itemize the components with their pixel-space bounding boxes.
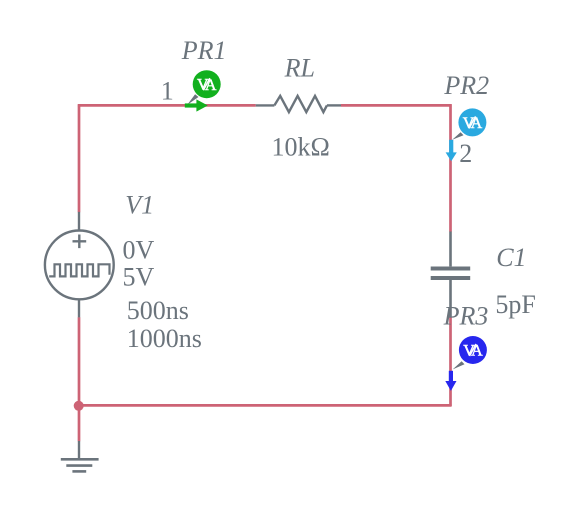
probe PR1 arrow tail xyxy=(185,103,197,107)
probe PR3 arrow tail xyxy=(449,371,453,382)
svg-text:1000ns: 1000ns xyxy=(127,324,202,353)
svg-text:1: 1 xyxy=(161,77,174,106)
ground lead xyxy=(78,441,80,458)
probe PR1 pointer wedge xyxy=(187,94,198,105)
svg-text:PR2: PR2 xyxy=(443,71,489,100)
svg-text:PR1: PR1 xyxy=(181,36,227,65)
probe PR3 pointer wedge xyxy=(453,361,465,369)
resistor RL right pin xyxy=(327,104,341,106)
voltage source V1 bottom pin xyxy=(78,300,80,317)
resistor RL zigzag body xyxy=(274,96,327,112)
voltage source V1 top pin xyxy=(78,212,80,230)
capacitor C1 bottom pin xyxy=(449,280,452,318)
probe PR1 arrow head xyxy=(196,99,207,111)
capacitor C1 top plate xyxy=(431,267,471,271)
resistor RL left pin xyxy=(256,104,275,106)
capacitor C1 bottom plate xyxy=(431,276,471,280)
svg-text:5pF: 5pF xyxy=(495,290,535,319)
probe PR3 circle xyxy=(459,336,487,364)
probe PR2 circle xyxy=(458,108,486,136)
svg-text:RL: RL xyxy=(284,54,315,83)
probe PR2 VA glyph xyxy=(463,115,483,132)
probe PR2 pointer wedge xyxy=(452,132,463,140)
svg-text:C1: C1 xyxy=(496,243,526,272)
junction dot node 0 xyxy=(74,401,84,411)
probe PR1 VA glyph xyxy=(197,77,217,94)
capacitor C1 top pin xyxy=(449,232,452,267)
ground bar 1 xyxy=(61,458,99,461)
voltage source V1 plus sign xyxy=(73,235,87,249)
svg-text:2: 2 xyxy=(459,139,472,168)
svg-text:PR3: PR3 xyxy=(443,302,489,331)
probe PR3 VA glyph xyxy=(463,342,483,359)
wire right vertical lower segment (C1 to bottom) xyxy=(449,318,452,407)
wire V1 bottom to junction and ground xyxy=(78,317,81,441)
probe PR2 arrow head xyxy=(446,152,457,161)
voltage source V1 square-wave glyph xyxy=(49,264,109,276)
ground bar 3 xyxy=(72,470,86,473)
wire bottom horizontal segment (node 0) xyxy=(79,404,452,407)
svg-text:V1: V1 xyxy=(125,191,154,220)
wire top-left horizontal segment (node 1) xyxy=(78,104,256,107)
svg-text:500ns: 500ns xyxy=(127,296,189,325)
ground bar 2 xyxy=(66,464,92,467)
probe PR3 arrow head xyxy=(445,381,456,391)
probe PR1 circle xyxy=(193,70,221,98)
wire right vertical upper segment (node 2) xyxy=(449,104,452,232)
probe PR2 arrow tail xyxy=(449,140,453,153)
svg-text:0V: 0V xyxy=(123,236,155,265)
svg-text:5V: 5V xyxy=(123,263,155,292)
wire top-right horizontal segment xyxy=(341,104,452,107)
wire left vertical segment (node 1 to V1) xyxy=(78,104,81,212)
voltage source V1 body circle xyxy=(45,231,114,300)
svg-text:10kΩ: 10kΩ xyxy=(272,133,330,162)
